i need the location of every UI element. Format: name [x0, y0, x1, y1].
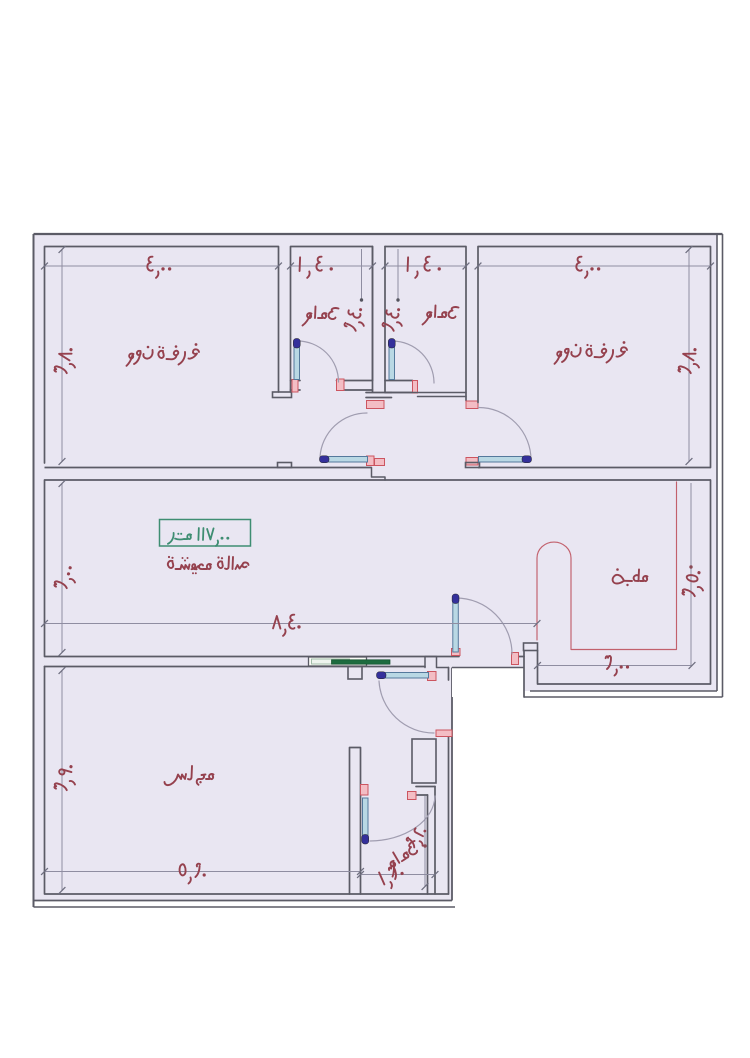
entrance door leaf — [377, 672, 429, 679]
living corridor door arc — [456, 598, 512, 654]
bath2 door leaf — [388, 339, 395, 380]
entrance jamb — [428, 672, 437, 681]
outer wall right mid line — [716, 234, 718, 691]
majlis section right wall inner — [448, 668, 450, 895]
hall door jamb — [367, 456, 375, 466]
window green bar — [332, 660, 391, 664]
dim line majlis vertical — [59, 667, 66, 894]
dim ext bed2 vertical — [686, 246, 693, 465]
majlis section right wall outer — [451, 668, 453, 901]
label 1,40 bath1 — [300, 257, 333, 278]
entry step wall — [425, 657, 449, 668]
void top edge — [452, 667, 524, 669]
bump on wall below bed1 divider — [278, 463, 292, 468]
dim line bed1 width — [41, 263, 282, 270]
dim line majlis 5.20 — [41, 868, 364, 875]
label 2,40 bath1 rotated — [343, 305, 368, 333]
label 3,50 kitchen rotated — [682, 568, 708, 599]
label 5,20 majlis — [180, 864, 206, 884]
bath1 door arc — [298, 341, 339, 382]
label 117,00 green — [198, 528, 229, 546]
dim ext bath2 — [396, 249, 399, 302]
majlis top wall — [45, 666, 426, 668]
bathroom1 bottom wall right — [337, 381, 373, 391]
label hammam bath1 — [303, 307, 339, 326]
divider bath1/bath2 — [366, 247, 392, 398]
kitchen left wall — [524, 651, 538, 698]
label 2,40 bath2 rotated — [381, 305, 406, 333]
bed2 door arc — [479, 408, 532, 461]
hall door arc — [320, 413, 367, 457]
dim line bath1 width — [287, 263, 376, 270]
bath1 jamb right — [337, 379, 345, 391]
kitchen bottom mid line — [530, 690, 717, 692]
kitchen counter red outline — [537, 482, 677, 650]
kitchen inner bottom — [538, 683, 711, 685]
dim line kitchen 3.00 — [534, 662, 695, 669]
bottom wall of majlis section — [34, 900, 453, 902]
label ghurfat nawm bed1 — [127, 343, 200, 366]
bed2 jamb lower — [466, 458, 478, 466]
bottom bath right wall — [428, 787, 436, 895]
green box — [160, 520, 251, 547]
kitchen bottom outer line — [524, 696, 723, 698]
bottom bath jamb right — [408, 792, 417, 800]
window inner pane — [312, 659, 350, 664]
label 3,00 living rotated — [54, 563, 79, 591]
label sala maeisha — [168, 556, 249, 574]
label matbakh — [613, 568, 648, 586]
dim line living vertical — [59, 480, 66, 656]
bath2 door arc — [393, 341, 435, 383]
dim ext bath1 — [360, 249, 363, 302]
label ghurfat nawm bed2 — [555, 341, 628, 364]
plan floor background — [34, 234, 718, 901]
bath1 jamb left — [292, 380, 298, 393]
bathroom 1 outline — [291, 247, 373, 393]
hall doorway step — [372, 468, 386, 481]
dim line kitchen 3.50 vertical — [689, 483, 692, 666]
label majlis — [165, 766, 214, 785]
dim line bed2 width — [475, 263, 714, 270]
label 1,40 bath2 — [408, 257, 441, 278]
dim line bath2 width — [382, 263, 470, 270]
label 3,80 right rotated — [678, 345, 704, 376]
entrance lower jamb — [436, 730, 452, 737]
bottom bath door leaf — [362, 798, 369, 844]
bath1/bath2 threshold pink — [367, 401, 385, 409]
living room outline — [45, 480, 711, 684]
bump below bed2 divider — [466, 463, 480, 468]
living room top wall lower line — [45, 479, 711, 481]
outer wall top — [34, 233, 723, 235]
window frame white — [309, 657, 367, 666]
living/corridor door jamb left — [452, 649, 461, 656]
label hammam bath2 — [423, 306, 459, 325]
label 1,30 rotated — [379, 863, 408, 890]
bathroom1 bottom wall left stub — [291, 381, 301, 391]
kitchen wall cap — [524, 643, 538, 651]
label 3,80 left rotated — [54, 345, 80, 376]
dim line bath 1.30 — [357, 871, 438, 878]
living corridor door leaf — [452, 594, 459, 652]
hall top wall right part — [385, 393, 466, 397]
label hammam bottom rotated — [382, 839, 425, 876]
label 3,00 kitchen — [606, 656, 630, 676]
bedroom 1 outline — [45, 247, 372, 468]
divider bed2 end cap pink — [466, 401, 478, 409]
bottom offset line — [34, 906, 456, 908]
label 8,40 — [273, 615, 301, 636]
bottom bath top wall — [416, 787, 435, 796]
bottom bath door arc — [370, 796, 435, 841]
majlis/bath wall — [350, 748, 361, 895]
dim line 8.40 — [41, 620, 540, 627]
stair void white — [452, 668, 524, 698]
label 4,00 bed1 — [147, 257, 171, 278]
bath2 bottom wall — [385, 381, 413, 393]
entrance door arc — [379, 681, 434, 733]
bathroom 2 outline — [385, 247, 466, 401]
hall doorway threshold pink — [375, 459, 385, 466]
bedroom 2 outline — [478, 247, 711, 468]
bottom closet rect — [412, 739, 436, 783]
dim ext bed1 vertical — [59, 246, 66, 465]
bath1 door leaf — [293, 339, 300, 380]
bath2 jamb — [413, 381, 418, 394]
label 3,90 majlis rotated — [54, 762, 80, 793]
majlis outline — [45, 667, 449, 895]
wall stub cap bed1/bath1 divider — [273, 392, 292, 398]
label mitr green — [168, 533, 191, 544]
hall door leaf — [320, 456, 368, 463]
outer wall right outer line — [722, 234, 724, 697]
outer wall left — [33, 234, 35, 907]
pier below majlis top wall — [348, 667, 362, 680]
label 4,00 bed2 — [576, 257, 600, 278]
dim line bath 2.60 vertical — [422, 796, 429, 890]
living/corridor door jamb right — [512, 653, 519, 665]
label 2,60 rotated — [405, 824, 431, 851]
bed2 door leaf — [479, 456, 532, 463]
bottom bath jamb top — [361, 785, 369, 796]
